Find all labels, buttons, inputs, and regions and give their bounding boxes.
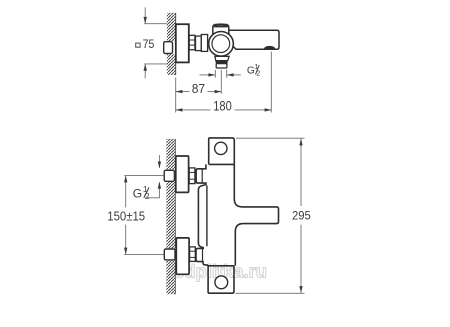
svg-text:2: 2 [256, 69, 260, 78]
svg-text:180: 180 [213, 99, 232, 114]
body inner edge line (front view) [206, 186, 208, 246]
text G1/2 (front view) [133, 184, 150, 201]
dimension 87 [176, 91, 222, 93]
dimension 180 [176, 109, 272, 111]
dimension 150±15 [125, 176, 127, 255]
svg-text:87: 87 [192, 81, 205, 96]
top inlet square fitting (front view) [164, 170, 175, 182]
bottom union nut (front view) [190, 247, 196, 262]
wall hatching (front view) [166, 139, 175, 294]
top union nut (front view) [189, 168, 195, 184]
spout aerator bump (top view) [264, 46, 275, 49]
295 dimension extension lines (front view) [236, 138, 305, 293]
dimension square-75 [144, 7, 167, 78]
valve body inner circle (top view) [212, 35, 230, 53]
svg-text:295: 295 [292, 209, 311, 223]
outlet collar (top view) [215, 56, 229, 60]
wall face extension line (top view) [175, 78, 177, 113]
mixer body outline (front view) [196, 138, 279, 293]
text G1/2 (top view) [247, 62, 260, 78]
cartridge cap dome arc (top view) [214, 23, 228, 26]
svg-text:G: G [133, 187, 142, 201]
valve body outer circle (top view) [209, 31, 234, 56]
G1/2 dimension arrows (top view) [200, 74, 241, 76]
wall escutcheon plate (top view) [176, 24, 189, 62]
150 dimension extension lines (front view) [124, 176, 164, 255]
square inlet fitting (top view) [164, 41, 176, 54]
G1/2 extension lines (top view) [215, 70, 226, 94]
outlet nub G1/2 (top view) [216, 64, 227, 68]
top escutcheon (front view) [176, 156, 189, 192]
connector ring (top view) [196, 36, 202, 51]
union nut (top view) [189, 35, 195, 50]
outlet dark band (top view) [216, 61, 228, 64]
connector collar (top view) [201, 35, 207, 52]
bottom bracket screw hole (front view) [215, 276, 228, 289]
180 right extension line (spout outlet) [270, 52, 272, 113]
svg-text:75: 75 [143, 39, 155, 51]
top adapter flange line (front view) [201, 169, 203, 183]
spout (top view) [227, 30, 279, 49]
top bracket screw hole (front view) [215, 142, 227, 154]
bottom adapter flange line (front view) [202, 249, 204, 262]
wall hatching (top view) [167, 13, 176, 75]
bottom inlet square fitting (front view) [164, 248, 175, 260]
G1/2 dimension (front view) [147, 155, 160, 198]
dimension 295 [300, 139, 302, 293]
square symbol of dimension 75 [136, 43, 140, 47]
svg-text:150±15: 150±15 [107, 208, 145, 223]
bottom escutcheon (front view) [176, 238, 189, 274]
cartridge cap (top view) [213, 25, 229, 36]
svg-text:2: 2 [145, 191, 150, 201]
